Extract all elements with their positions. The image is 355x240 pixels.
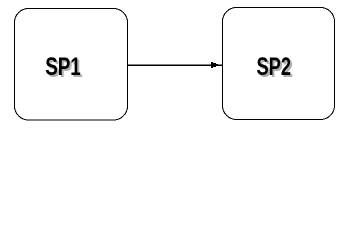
node SP2 box	[223, 8, 335, 120]
arrowhead	[211, 62, 218, 68]
wire arrow SP1 to SP2	[128, 64, 223, 66]
svg-text:SP1: SP1	[45, 53, 81, 81]
node SP1 box	[15, 9, 128, 121]
svg-text:SP2: SP2	[257, 53, 292, 81]
